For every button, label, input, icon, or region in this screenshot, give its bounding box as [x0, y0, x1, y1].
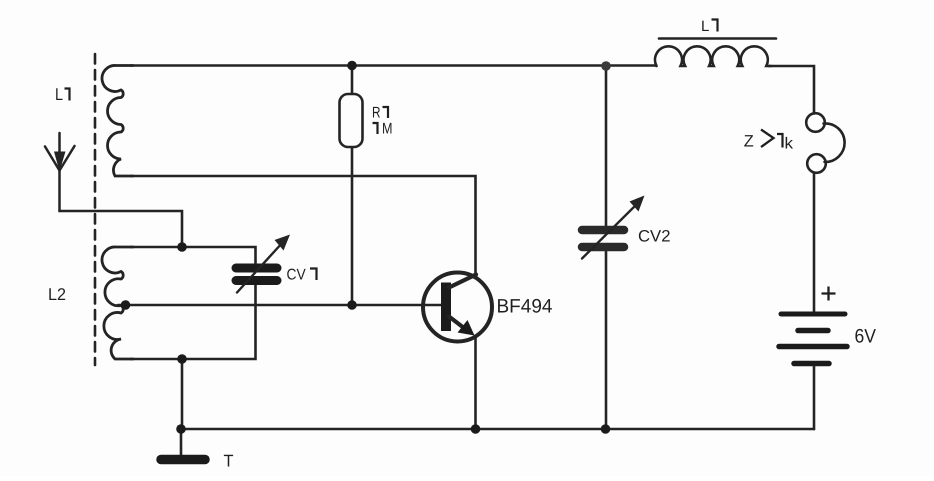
ferrite rod dashed line: [94, 54, 97, 365]
earth bar T: [161, 455, 205, 465]
node L2 tap: [121, 300, 131, 310]
wire earphone to battery: [813, 174, 816, 313]
capacitor CV1: [236, 235, 290, 293]
svg-text:M: M: [382, 121, 393, 138]
svg-text:CV: CV: [287, 267, 307, 284]
wire base (L2 tap to transistor base): [118, 304, 443, 307]
svg-text:k: k: [785, 136, 795, 153]
node R1 base: [347, 300, 357, 310]
inductor L2: [102, 247, 133, 359]
svg-text:CV2: CV2: [638, 228, 671, 246]
earphone Z>1k: [806, 113, 844, 173]
resistor R1 drop wires: [351, 66, 354, 95]
capacitor CV2 line: [605, 66, 608, 226]
battery B1: [779, 314, 847, 364]
wire L2 top to CV1: [131, 247, 256, 263]
ground rail: [181, 428, 814, 431]
inductor L1 left: [102, 65, 133, 176]
node CV2 top: [601, 61, 611, 71]
node rail emitter: [471, 424, 481, 434]
antenna: [45, 133, 75, 211]
wire antenna to L2 top: [60, 211, 183, 247]
resistor R1 body: [340, 94, 363, 147]
label 1M: [373, 123, 378, 134]
svg-text:L2: L2: [48, 285, 66, 304]
svg-text:L: L: [701, 18, 709, 35]
wire coil to earphone: [769, 66, 814, 114]
wire battery to rail: [813, 366, 816, 429]
wire L2 bottom to ground rail: [181, 359, 184, 429]
inductor L1 right: [655, 46, 771, 66]
svg-text:6V: 6V: [855, 326, 877, 348]
node rail ground: [176, 424, 186, 434]
node L2 top: [177, 242, 187, 252]
svg-text:T: T: [224, 452, 234, 471]
svg-text:L: L: [55, 85, 63, 104]
svg-text:BF494: BF494: [497, 296, 553, 318]
label +: [822, 287, 836, 301]
wire emitter to rail: [474, 337, 477, 430]
node L2 bottom: [177, 354, 187, 364]
node rail CV2: [601, 424, 611, 434]
transistor Q1 BF494: [423, 273, 492, 342]
capacitor CV2 plates: [582, 196, 645, 259]
wire to earth: [180, 429, 183, 455]
L1 right core line: [659, 37, 776, 40]
svg-text:Z: Z: [744, 133, 754, 151]
wire L2 bottom to CV1: [131, 285, 256, 359]
wire top rail: [131, 64, 656, 67]
svg-text:R: R: [372, 105, 381, 122]
wire collector feed (L1 bottom to transistor): [131, 176, 476, 277]
node R1 top: [347, 61, 357, 71]
